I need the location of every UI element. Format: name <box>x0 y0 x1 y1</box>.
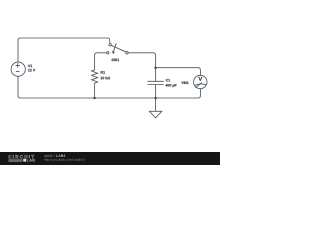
capacitor C1 plates <box>147 81 163 84</box>
resistor R1 zigzag <box>92 69 98 85</box>
label 12 V <box>28 69 35 72</box>
wire: R1 bottom to rail <box>94 85 96 98</box>
watermark user text <box>44 154 55 157</box>
watermark logo lines <box>8 159 22 161</box>
label 10 kOhm <box>101 77 111 80</box>
label VM1 <box>181 82 188 84</box>
junction node at C1/VM1 tap <box>154 66 157 69</box>
watermark logo LAB <box>27 159 35 162</box>
watermark url text <box>44 158 84 161</box>
wire: switch lower throw to R1 top <box>95 53 107 69</box>
voltage source V1 circle <box>11 62 25 76</box>
wire: C1 bottom to rail <box>155 85 157 99</box>
watermark logo CIRCUIT <box>8 155 34 158</box>
ground stem <box>155 98 157 111</box>
wire: switch common terminal to C1 top <box>128 53 155 82</box>
watermark bar <box>0 152 220 165</box>
label C1 <box>166 79 170 82</box>
voltmeter VM1 circle <box>194 75 207 88</box>
label V1 <box>28 65 32 67</box>
switch SW1 lever <box>111 45 125 51</box>
switch SW1 lower throw terminal <box>107 52 109 54</box>
wire: node to VM1 top <box>156 68 201 76</box>
switch SW1 arrow head <box>112 51 115 54</box>
label R1 <box>101 71 105 73</box>
label 400 uF <box>165 84 176 87</box>
switch SW1 common terminal <box>126 52 128 54</box>
VM1 letter V <box>198 77 202 81</box>
junction node at C1/ground and rail <box>154 97 157 100</box>
junction node at R1 and rail <box>93 97 96 100</box>
switch SW1 upper throw terminal <box>109 44 111 46</box>
watermark user bold text <box>56 154 65 156</box>
ground triangle <box>149 111 161 118</box>
wire: V1 bottom / ground rail / up to VM1 bottom <box>18 76 200 98</box>
switch SW1 actuator arrow shaft <box>114 43 117 51</box>
VM1 gauge arc <box>194 84 206 86</box>
watermark logo scope icon <box>23 159 26 162</box>
label SW1 <box>112 59 120 62</box>
wire: V1 top to switch upper throw terminal <box>18 38 110 62</box>
V1 minus sign <box>16 70 20 72</box>
V1 plus sign <box>16 63 20 67</box>
VM1 gauge needle <box>196 83 202 88</box>
